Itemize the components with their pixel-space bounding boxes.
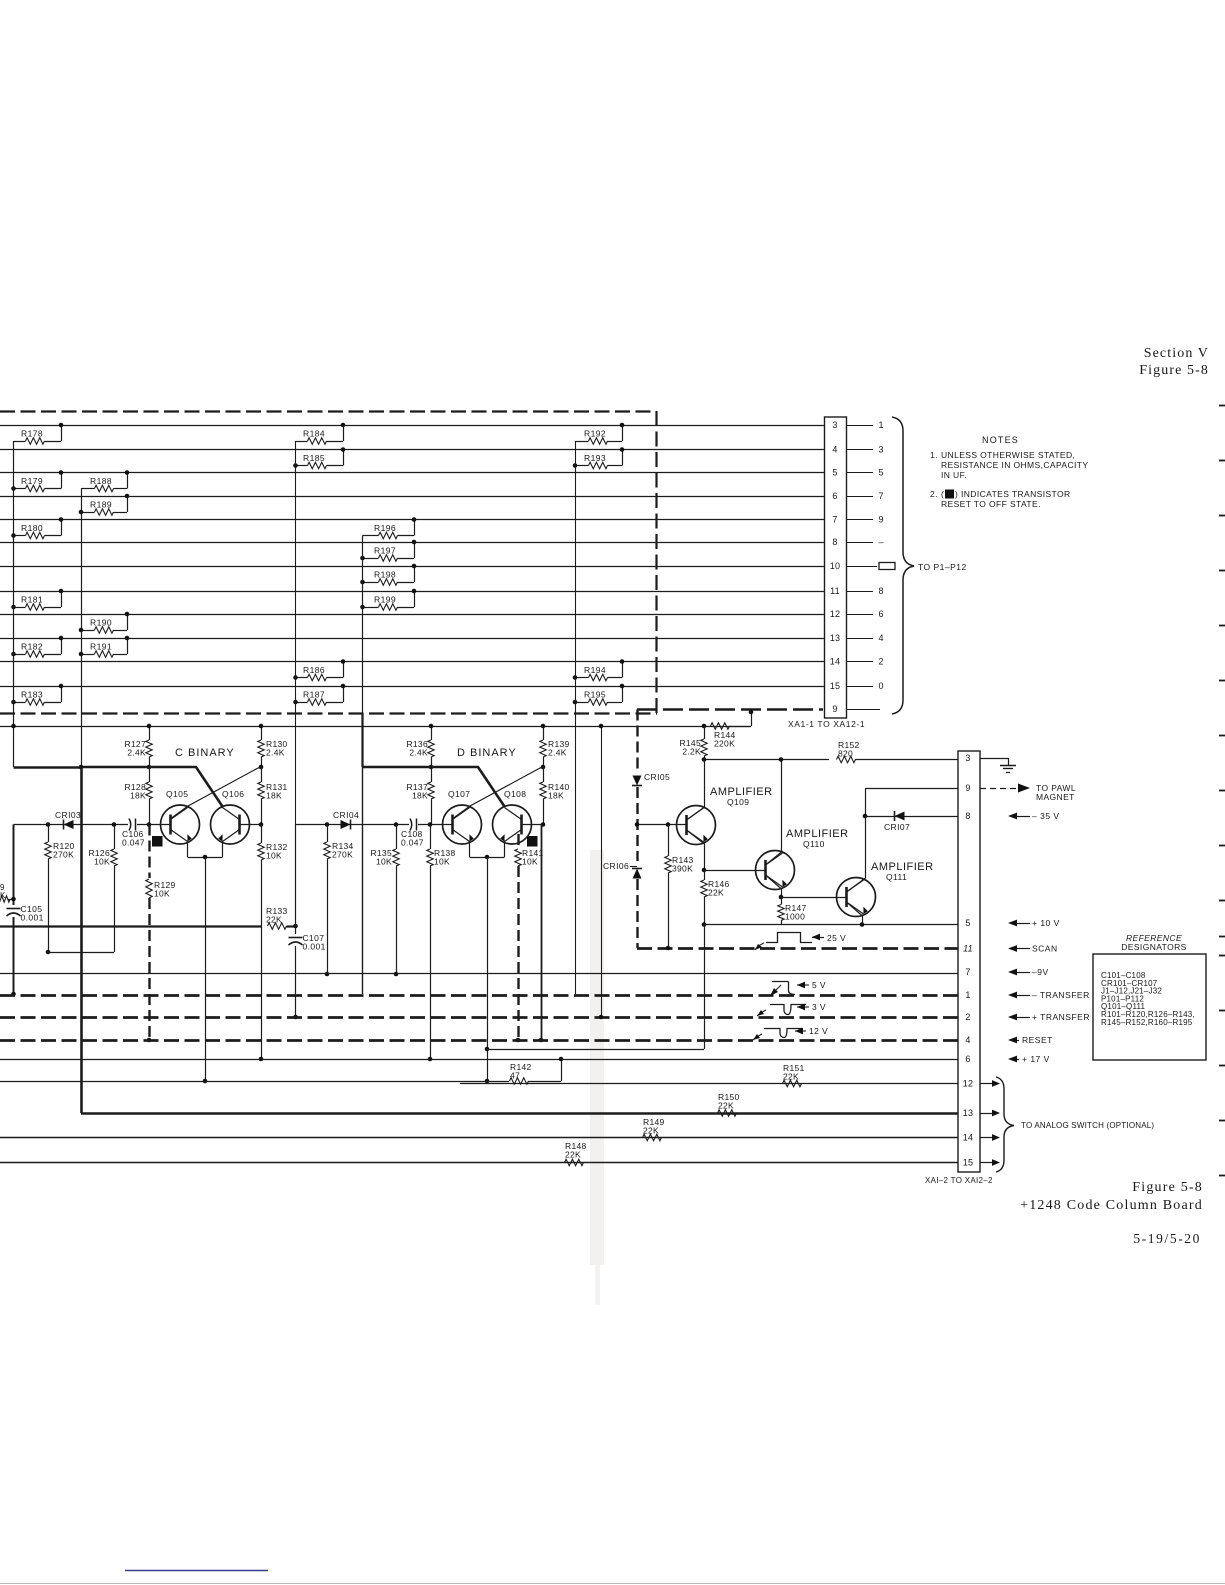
- svg-text:6: 6: [965, 1054, 970, 1064]
- svg-text:R193: R193: [584, 453, 606, 463]
- svg-text:2: 2: [965, 1012, 970, 1022]
- svg-text:22K: 22K: [718, 1100, 734, 1110]
- svg-text:R198: R198: [374, 570, 396, 580]
- svg-text:3: 3: [832, 420, 837, 430]
- svg-text:4: 4: [965, 1035, 970, 1045]
- svg-text:6: 6: [832, 491, 837, 501]
- svg-text:2.2K: 2.2K: [682, 746, 701, 756]
- svg-text:R145–R152,R160–R195: R145–R152,R160–R195: [1101, 1018, 1193, 1027]
- svg-text:+ 10 V: + 10 V: [1032, 918, 1060, 928]
- svg-text:10: 10: [830, 561, 840, 571]
- svg-text:Q105: Q105: [166, 789, 188, 799]
- svg-text:CRI06: CRI06: [603, 861, 629, 871]
- svg-text:1: 1: [878, 420, 883, 430]
- svg-text:10K: 10K: [434, 856, 450, 866]
- svg-text:(: (: [941, 489, 944, 499]
- svg-text:R194: R194: [584, 665, 606, 675]
- svg-text:2.: 2.: [930, 489, 938, 499]
- svg-text:5: 5: [832, 468, 837, 478]
- svg-text:3: 3: [965, 753, 970, 763]
- svg-text:22K: 22K: [783, 1071, 799, 1081]
- svg-text:R199: R199: [374, 595, 396, 605]
- svg-text:2: 2: [878, 657, 883, 667]
- svg-text:R197: R197: [374, 546, 396, 556]
- svg-text:R182: R182: [21, 642, 43, 652]
- svg-text:NOTES: NOTES: [982, 435, 1019, 445]
- svg-text:25 V: 25 V: [827, 933, 846, 943]
- svg-text:8: 8: [965, 811, 970, 821]
- svg-text:R196: R196: [374, 523, 396, 533]
- svg-text:10K: 10K: [94, 856, 110, 866]
- svg-text:SCAN: SCAN: [1032, 944, 1058, 954]
- svg-text:R185: R185: [303, 453, 325, 463]
- svg-text:18K: 18K: [266, 790, 282, 800]
- svg-text:2.4K: 2.4K: [548, 747, 567, 757]
- svg-text:5-19/5-20: 5-19/5-20: [1133, 1231, 1201, 1246]
- svg-text:11: 11: [830, 586, 840, 596]
- svg-text:47: 47: [510, 1070, 520, 1080]
- svg-text:10K: 10K: [522, 856, 538, 866]
- svg-text:RESISTANCE IN OHMS,CAPACITY: RESISTANCE IN OHMS,CAPACITY: [941, 460, 1088, 470]
- svg-text:1.: 1.: [930, 450, 938, 460]
- svg-text:CRI04: CRI04: [333, 810, 359, 820]
- svg-text:14: 14: [963, 1133, 973, 1143]
- svg-text:R179: R179: [21, 476, 43, 486]
- svg-text:Q111: Q111: [886, 872, 907, 882]
- svg-text:) INDICATES TRANSISTOR: ) INDICATES TRANSISTOR: [955, 489, 1071, 499]
- svg-text:270K: 270K: [53, 849, 74, 859]
- svg-text:R195: R195: [584, 690, 606, 700]
- svg-text:Section V: Section V: [1144, 346, 1209, 361]
- svg-text:1000: 1000: [785, 911, 805, 921]
- svg-text:11: 11: [963, 944, 973, 954]
- svg-text:0.001: 0.001: [303, 942, 326, 952]
- svg-text:10K: 10K: [154, 888, 170, 898]
- svg-text:6: 6: [878, 609, 883, 619]
- svg-text:2.4K: 2.4K: [266, 747, 285, 757]
- svg-text:RESET: RESET: [1022, 1035, 1053, 1045]
- svg-text:5 V: 5 V: [812, 980, 826, 990]
- svg-text:Q110: Q110: [803, 839, 825, 849]
- svg-text:8: 8: [832, 537, 837, 547]
- svg-text:C BINARY: C BINARY: [175, 747, 235, 759]
- svg-text:3: 3: [878, 445, 883, 455]
- svg-text:TO P1–P12: TO P1–P12: [918, 562, 967, 572]
- svg-text:4: 4: [832, 445, 837, 455]
- svg-text:D BINARY: D BINARY: [457, 747, 517, 759]
- svg-text:13: 13: [963, 1108, 973, 1118]
- svg-text:Q107: Q107: [448, 789, 470, 799]
- svg-text:12 V: 12 V: [809, 1026, 828, 1036]
- svg-text:15: 15: [830, 681, 840, 691]
- svg-text:270K: 270K: [332, 849, 353, 859]
- svg-text:22K: 22K: [643, 1125, 659, 1135]
- svg-text:–: –: [878, 537, 883, 547]
- svg-text:CRI05: CRI05: [644, 772, 670, 782]
- svg-text:12: 12: [830, 609, 840, 619]
- svg-text:12: 12: [963, 1079, 973, 1089]
- svg-text:15: 15: [963, 1158, 973, 1168]
- svg-text:IN UF.: IN UF.: [941, 470, 967, 480]
- svg-text:–9V: –9V: [1032, 967, 1049, 977]
- svg-text:CRI03: CRI03: [55, 810, 81, 820]
- svg-text:18K: 18K: [412, 790, 428, 800]
- svg-text:R190: R190: [90, 618, 112, 628]
- svg-text:R187: R187: [303, 690, 325, 700]
- svg-text:R191: R191: [90, 642, 112, 652]
- svg-text:18K: 18K: [130, 790, 146, 800]
- svg-text:R180: R180: [21, 523, 43, 533]
- svg-text:R183: R183: [21, 690, 43, 700]
- svg-text:Figure 5-8: Figure 5-8: [1132, 1180, 1203, 1195]
- svg-text:0: 0: [878, 681, 883, 691]
- svg-text:– TRANSFER: – TRANSFER: [1032, 990, 1090, 1000]
- svg-text:XAI–2 TO XAI2–2: XAI–2 TO XAI2–2: [925, 1176, 993, 1185]
- svg-text:R184: R184: [303, 429, 325, 439]
- svg-text:10K: 10K: [376, 856, 392, 866]
- svg-text:1: 1: [965, 990, 970, 1000]
- svg-text:13: 13: [830, 633, 840, 643]
- svg-text:+1248 Code Column Board: +1248 Code Column Board: [1020, 1198, 1203, 1213]
- svg-text:UNLESS OTHERWISE STATED,: UNLESS OTHERWISE STATED,: [941, 450, 1075, 460]
- svg-text:Q108: Q108: [504, 789, 526, 799]
- svg-text:7: 7: [878, 491, 883, 501]
- svg-text:8: 8: [878, 586, 883, 596]
- svg-text:Q109: Q109: [727, 797, 749, 807]
- svg-text:0.047: 0.047: [122, 837, 145, 847]
- svg-text:DESIGNATORS: DESIGNATORS: [1121, 942, 1187, 952]
- svg-text:RESET TO OFF STATE.: RESET TO OFF STATE.: [941, 499, 1041, 509]
- svg-text:9: 9: [878, 515, 883, 525]
- svg-text:+ 17 V: + 17 V: [1022, 1054, 1050, 1064]
- svg-text:0.047: 0.047: [401, 837, 424, 847]
- svg-text:MAGNET: MAGNET: [1036, 792, 1075, 802]
- svg-text:820: 820: [838, 748, 853, 758]
- svg-text:R188: R188: [90, 476, 112, 486]
- svg-text:18K: 18K: [548, 790, 564, 800]
- svg-text:3 V: 3 V: [812, 1002, 826, 1012]
- svg-text:14: 14: [830, 657, 840, 667]
- svg-text:Q106: Q106: [222, 789, 244, 799]
- svg-text:22K: 22K: [266, 914, 282, 924]
- svg-text:R181: R181: [21, 595, 43, 605]
- svg-text:– 35 V: – 35 V: [1032, 811, 1060, 821]
- svg-text:22K: 22K: [565, 1149, 581, 1159]
- svg-text:R189: R189: [90, 500, 112, 510]
- svg-text:K: K: [0, 891, 6, 900]
- svg-text:R178: R178: [21, 429, 43, 439]
- svg-text:5: 5: [878, 468, 883, 478]
- svg-text:XA1-1 TO XA12-1: XA1-1 TO XA12-1: [788, 719, 865, 729]
- svg-text:22K: 22K: [708, 887, 724, 897]
- svg-text:R192: R192: [584, 429, 606, 439]
- svg-text:5: 5: [965, 918, 970, 928]
- svg-text:390K: 390K: [672, 863, 693, 873]
- svg-text:Figure 5-8: Figure 5-8: [1139, 363, 1209, 378]
- svg-text:9: 9: [832, 704, 837, 714]
- svg-text:10K: 10K: [266, 850, 282, 860]
- svg-text:7: 7: [832, 515, 837, 525]
- svg-text:2.4K: 2.4K: [127, 747, 146, 757]
- svg-text:220K: 220K: [714, 738, 735, 748]
- svg-text:CRI07: CRI07: [884, 822, 910, 832]
- svg-text:7: 7: [965, 967, 970, 977]
- svg-text:0.001: 0.001: [21, 913, 44, 923]
- svg-text:TO ANALOG SWITCH (OPTIONAL): TO ANALOG SWITCH (OPTIONAL): [1021, 1121, 1154, 1130]
- svg-text:+ TRANSFER: + TRANSFER: [1032, 1012, 1090, 1022]
- svg-text:2.4K: 2.4K: [409, 747, 428, 757]
- svg-text:4: 4: [878, 633, 883, 643]
- svg-text:R186: R186: [303, 665, 325, 675]
- svg-text:9: 9: [965, 783, 970, 793]
